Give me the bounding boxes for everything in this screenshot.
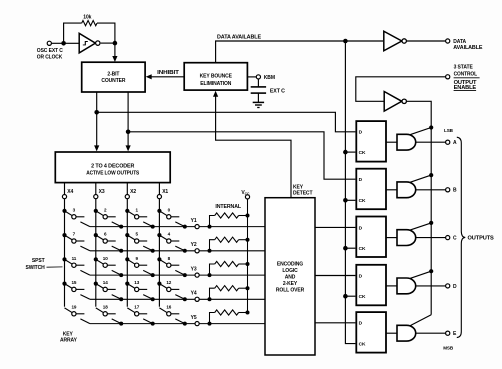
wire pull-up riser Y2 (210, 240, 215, 251)
wire gate 2 to terminal B (416, 189, 446, 191)
wire latch 4 output to gate (386, 285, 397, 287)
junction row Y4 at lever (119, 297, 123, 301)
wire enable diagonal gate 3 (410, 223, 431, 230)
svg-text:X2: X2 (130, 189, 136, 195)
junction column X1 row 1 (157, 209, 161, 213)
terminal pin Y2 (195, 249, 199, 253)
junction column X1 row 2 (157, 233, 161, 237)
svg-text:2-BIT: 2-BIT (107, 71, 119, 77)
terminal KBM pin (256, 75, 260, 79)
wire clock stub latch 1 (345, 151, 355, 153)
junction column X2 row 3 (125, 257, 129, 261)
junction row Y5 pull-up tap (208, 322, 212, 326)
junction column X3 row 4 (94, 282, 98, 286)
svg-text:ELIMINATION: ELIMINATION (200, 81, 232, 87)
terminal pin Y5 (195, 322, 199, 326)
junction enable rail gate 2 (429, 173, 433, 177)
resistor internal pull-up Y4 (215, 286, 239, 291)
wire enable diagonal gate 5 (410, 315, 431, 326)
wire decoder output stub X4 (64, 183, 66, 195)
resistor internal pull-up Y2 (215, 237, 239, 242)
key switch S1 (column X2, row Y1) (127, 211, 152, 227)
svg-text:CK: CK (359, 246, 366, 252)
junction osc input node (61, 41, 66, 46)
and-gate G5 output E (397, 325, 416, 341)
svg-text:6: 6 (104, 232, 107, 237)
wire decoder output stub X1 (158, 183, 160, 195)
svg-text:ENCODING: ENCODING (277, 261, 303, 267)
svg-text:B: B (453, 188, 457, 194)
svg-text:Y4: Y4 (191, 291, 197, 297)
svg-text:10k: 10k (83, 15, 91, 21)
wire to KBM pin (247, 76, 256, 78)
latch U7 (D flip-flop D) (356, 265, 386, 306)
junction column X3 row 3 (94, 257, 98, 261)
wire KBM to capacitor (257, 79, 259, 87)
junction row Y4 at lever (183, 297, 187, 301)
key switch S7 (column X4, row Y2) (65, 235, 90, 251)
svg-text:0: 0 (168, 207, 171, 212)
wire column X1 (158, 199, 160, 307)
svg-text:CK: CK (359, 342, 366, 348)
latch U8 (D flip-flop E) (356, 312, 386, 353)
svg-text:9: 9 (135, 256, 138, 261)
key switch S17 (column X2, row Y5) (127, 308, 152, 324)
block 2 to 4 decoder (55, 152, 170, 183)
junction column X3 row 1 (94, 209, 98, 213)
wire row Y1 (90, 226, 265, 228)
rule above OUTPUT (454, 77, 480, 79)
wire pull-up riser Y4 (210, 288, 215, 299)
wire pull-up to Vcc rail Y4 (239, 287, 248, 289)
svg-text:2: 2 (104, 207, 107, 212)
svg-text:13: 13 (134, 280, 139, 285)
junction row Y2 pull-up tap (208, 249, 212, 253)
junction enable rail gate 1 (429, 125, 433, 129)
wire 3-state control to enable inverter (356, 77, 446, 102)
svg-text:DETECT: DETECT (293, 191, 312, 197)
inverter U2 data available buffer (384, 31, 407, 51)
svg-text:KEY BOUNCE: KEY BOUNCE (200, 73, 233, 79)
key switch S0 (column X1, row Y1) (159, 211, 184, 227)
junction row Y1 pull-up tap (208, 225, 212, 229)
wire enable diagonal gate 1 (410, 128, 431, 135)
key switch S13 (column X2, row Y4) (127, 284, 152, 300)
svg-text:SWITCH: SWITCH (25, 265, 45, 271)
key switch S12 (column X1, row Y4) (159, 284, 184, 300)
junction Vcc rail Y4 (246, 286, 250, 290)
terminal pin X3 (94, 195, 98, 199)
wire counter B to latch 2 D (128, 132, 355, 179)
svg-text:X3: X3 (99, 189, 105, 195)
svg-text:X1: X1 (162, 189, 168, 195)
svg-text:8: 8 (168, 256, 171, 261)
wire capacitor to ground (257, 93, 259, 102)
svg-text:5: 5 (135, 232, 138, 237)
junction oscillator output node (113, 41, 118, 46)
wire pull-up to Vcc rail Y5 (239, 312, 248, 314)
junction Vcc rail Y5 (246, 311, 250, 315)
wire column X4 (64, 199, 66, 307)
svg-text:19: 19 (71, 304, 76, 309)
key switch S6 (column X3, row Y2) (96, 235, 121, 251)
svg-text:2-KEY: 2-KEY (283, 281, 298, 287)
junction Vcc rail Y1 (246, 214, 250, 218)
junction row Y2 at lever (151, 249, 155, 253)
junction row Y2 at lever (119, 249, 123, 253)
wire latch 1 output to gate (386, 141, 397, 143)
wire pull-up riser Y3 (210, 264, 215, 275)
wire clock stub latch 2 (345, 199, 355, 201)
wire pull-up to Vcc rail Y1 (239, 215, 248, 217)
terminal output D (446, 284, 450, 288)
key switch S15 (column X4, row Y4) (65, 284, 90, 300)
junction counter output A (94, 110, 99, 115)
block encoding logic and 2-key rollover (265, 198, 315, 355)
latch U4 (D flip-flop A) (356, 121, 386, 162)
svg-text:DATA AVAILABLE: DATA AVAILABLE (217, 34, 262, 40)
terminal output A (446, 140, 450, 144)
wire clock stub latch 3 (345, 247, 355, 249)
svg-text:ARRAY: ARRAY (60, 337, 78, 343)
svg-text:16: 16 (166, 304, 171, 309)
svg-text:CK: CK (359, 198, 366, 204)
wire gate 3 to terminal C (416, 237, 446, 239)
and-gate G1 output A (397, 134, 416, 150)
resistor internal pull-up Y3 (215, 261, 239, 266)
terminal pin Y1 (195, 225, 199, 229)
svg-text:MSB: MSB (443, 345, 454, 350)
terminal pin X2 (125, 195, 129, 199)
underline below ENABLE (454, 90, 477, 92)
svg-text:4: 4 (168, 232, 171, 237)
svg-text:3 STATE: 3 STATE (454, 65, 474, 71)
junction column X4 row 2 (62, 233, 66, 237)
junction row Y3 at lever (183, 273, 187, 277)
svg-text:12: 12 (166, 280, 171, 285)
wire gate 1 to terminal A (416, 141, 446, 143)
svg-text:INTERNAL: INTERNAL (215, 204, 241, 210)
leader line SPST switch (47, 266, 63, 268)
svg-text:E: E (453, 331, 457, 337)
wire enable diagonal gate 4 (410, 271, 431, 278)
svg-text:SPST: SPST (32, 258, 45, 264)
junction column X2 row 1 (125, 209, 129, 213)
junction enable rail gate 3 (429, 221, 433, 225)
block 2-bit counter (82, 62, 145, 92)
junction data available / latch clock (343, 39, 348, 44)
junction row Y2 at lever (183, 249, 187, 253)
wire encoder output to latch 5 D (315, 322, 355, 324)
junction column X2 row 4 (125, 282, 129, 286)
and-gate G2 output B (397, 182, 416, 198)
svg-text:X4: X4 (67, 189, 73, 195)
wire osc node down to counter (114, 43, 116, 57)
and-gate G4 output D (397, 278, 416, 294)
svg-text:KEY: KEY (63, 331, 74, 337)
latch U5 (D flip-flop B) (356, 169, 386, 210)
wire data available to buffer (345, 40, 383, 42)
resistor internal pull-up Y5 (215, 310, 239, 315)
wire encoder output to latch 4 D (315, 275, 355, 277)
key switch S16 (column X1, row Y5) (159, 308, 184, 324)
junction column X2 row 2 (125, 233, 129, 237)
svg-text:A: A (453, 140, 457, 146)
wire decoder output stub X2 (126, 183, 128, 195)
svg-text:Y2: Y2 (191, 242, 197, 248)
latch U6 (D flip-flop C) (356, 217, 386, 258)
terminal output E (446, 331, 450, 335)
arrowhead inhibit into counter (146, 74, 152, 79)
junction clock latch 1 (343, 150, 348, 155)
svg-text:LOGIC: LOGIC (282, 268, 298, 274)
svg-text:COUNTER: COUNTER (101, 78, 126, 84)
junction enable rail gate 4 (429, 269, 433, 273)
junction row Y1 at lever (183, 225, 187, 229)
key switch S8 (column X1, row Y3) (159, 259, 184, 275)
wire data available from bounce block (216, 41, 346, 63)
svg-text:KBM: KBM (264, 75, 275, 81)
key switch S18 (column X3, row Y5) (96, 308, 121, 324)
key switch S10 (column X3, row Y3) (96, 259, 121, 275)
svg-text:LSB: LSB (444, 128, 454, 133)
svg-text:OSC EXT C: OSC EXT C (37, 48, 63, 54)
ground symbol (253, 102, 264, 107)
key switch S4 (column X1, row Y2) (159, 235, 184, 251)
wire gate 5 to terminal E (416, 332, 446, 334)
wire row Y5 (90, 323, 265, 325)
svg-text:ROLL OVER: ROLL OVER (276, 287, 305, 293)
wire pull-up riser Y1 (210, 216, 215, 227)
terminal 3 STATE CONTROL input (446, 75, 450, 79)
svg-text:CK: CK (359, 150, 366, 156)
key switch S11 (column X4, row Y3) (65, 259, 90, 275)
arrowhead into counter top (112, 56, 117, 62)
svg-text:DATA: DATA (453, 39, 466, 45)
svg-text:1: 1 (135, 207, 138, 212)
wire feedback left (64, 23, 82, 43)
terminal OSC EXT C OR CLOCK input (47, 41, 51, 45)
wire row Y3 (90, 274, 265, 276)
svg-text:AVAILABLE: AVAILABLE (453, 45, 483, 51)
wire latch 5 output to gate (386, 332, 397, 334)
wire row Y2 (90, 250, 265, 252)
svg-text:2 TO 4 DECODER: 2 TO 4 DECODER (91, 164, 135, 170)
wire clock stub latch 4 (345, 295, 355, 297)
arrowhead key detect into bounce block (213, 91, 218, 97)
junction Vcc rail Y2 (246, 238, 250, 242)
wire latch 2 output to gate (386, 189, 397, 191)
junction clock latch 2 (343, 198, 348, 203)
svg-text:17: 17 (134, 304, 139, 309)
junction column X4 row 3 (62, 257, 66, 261)
wire column X2 (126, 199, 128, 307)
junction row Y5 at lever (151, 322, 155, 326)
brace outputs (457, 137, 466, 337)
wire inverter output to node (101, 42, 115, 44)
wire buffer to DATA AVAILABLE terminal (406, 40, 445, 42)
svg-text:Y1: Y1 (191, 218, 197, 224)
svg-text:18: 18 (103, 304, 108, 309)
terminal output C (446, 236, 450, 240)
wire node to inverter input (64, 42, 80, 44)
inverter U3 output enable (384, 92, 406, 112)
key switch S9 (column X2, row Y3) (127, 259, 152, 275)
arrowhead into decoder (A) (94, 145, 99, 151)
terminal pin X1 (157, 195, 161, 199)
resistor R1 10k feedback (82, 21, 97, 26)
wire row Y4 (90, 298, 265, 300)
junction clock latch 4 (343, 294, 348, 299)
inverter U1 oscillator (schmitt) (79, 33, 100, 53)
terminal Vcc (245, 195, 249, 199)
svg-text:OUTPUTS: OUTPUTS (468, 236, 495, 242)
wire KEY DETECT to key bounce elimination (216, 95, 291, 197)
junction row Y1 at lever (119, 225, 123, 229)
wire pull-up to Vcc rail Y2 (239, 239, 248, 241)
junction row Y4 at lever (151, 297, 155, 301)
block key bounce elimination (184, 63, 247, 90)
terminal output B (446, 188, 450, 192)
wire osc terminal to node (51, 42, 63, 44)
wire counter output A down to decoder (96, 92, 98, 147)
arrowhead into decoder (B) (126, 145, 131, 151)
and-gate G3 output C (397, 230, 416, 246)
wire feedback right (97, 23, 115, 43)
svg-text:AND: AND (285, 274, 296, 280)
capacitor C1 EXT C (251, 87, 266, 93)
svg-text:ENABLE: ENABLE (454, 85, 477, 91)
junction row Y5 at lever (183, 322, 187, 326)
svg-text:15: 15 (71, 280, 76, 285)
svg-text:10: 10 (103, 256, 108, 261)
wire enable rail (406, 101, 431, 314)
key switch S14 (column X3, row Y4) (96, 284, 121, 300)
junction row Y3 at lever (151, 273, 155, 277)
junction column X4 row 1 (62, 209, 66, 213)
junction row Y3 pull-up tap (208, 273, 212, 277)
junction column X3 row 2 (94, 233, 98, 237)
wire encoder output to latch 3 D (315, 226, 355, 228)
svg-text:CONTROL: CONTROL (454, 71, 477, 77)
resistor internal pull-up Y1 (215, 213, 239, 218)
junction column X1 row 4 (157, 282, 161, 286)
svg-text:11: 11 (72, 256, 77, 261)
wire enable diagonal gate 2 (410, 175, 431, 182)
svg-text:EXT C: EXT C (270, 89, 286, 95)
junction counter output B (126, 130, 131, 135)
junction column X1 row 3 (157, 257, 161, 261)
key switch S19 (column X4, row Y5) (65, 308, 90, 324)
wire Vcc rail (247, 199, 249, 313)
svg-text:Y5: Y5 (191, 315, 197, 321)
svg-text:C: C (453, 236, 457, 242)
key switch S3 (column X4, row Y1) (65, 211, 90, 227)
svg-text:ACTIVE LOW OUTPUTS: ACTIVE LOW OUTPUTS (86, 170, 140, 176)
wire pull-up to Vcc rail Y3 (239, 263, 248, 265)
wire column X3 (95, 199, 97, 307)
svg-text:INHIBIT: INHIBIT (157, 70, 179, 76)
key switch S5 (column X2, row Y2) (127, 235, 152, 251)
svg-text:CK: CK (359, 294, 366, 300)
svg-text:D: D (453, 284, 457, 290)
wire gate 4 to terminal D (416, 285, 446, 287)
junction row Y3 at lever (119, 273, 123, 277)
terminal pin Y3 (195, 273, 199, 277)
junction row Y4 pull-up tap (208, 297, 212, 301)
junction Vcc rail Y3 (246, 262, 250, 266)
svg-text:7: 7 (73, 232, 76, 237)
svg-text:14: 14 (103, 280, 108, 285)
junction row Y5 at lever (119, 322, 123, 326)
terminal DATA AVAILABLE output (446, 39, 450, 43)
junction column X4 row 4 (62, 282, 66, 286)
terminal pin Y4 (195, 297, 199, 301)
wire INHIBIT (150, 76, 184, 78)
wire counter A to latch 1 D (97, 112, 356, 132)
wire counter output B down to decoder (127, 92, 129, 147)
svg-text:Y3: Y3 (191, 266, 197, 272)
key switch S2 (column X3, row Y1) (96, 211, 121, 227)
svg-text:OR CLOCK: OR CLOCK (37, 54, 63, 60)
terminal pin X4 (62, 195, 66, 199)
junction clock latch 3 (343, 246, 348, 251)
wire latch clock rail (345, 41, 355, 344)
wire pull-up riser Y5 (210, 313, 215, 324)
wire latch 3 output to gate (386, 237, 397, 239)
wire decoder output stub X3 (95, 183, 97, 195)
junction row Y1 at lever (151, 225, 155, 229)
svg-text:3: 3 (73, 207, 76, 212)
